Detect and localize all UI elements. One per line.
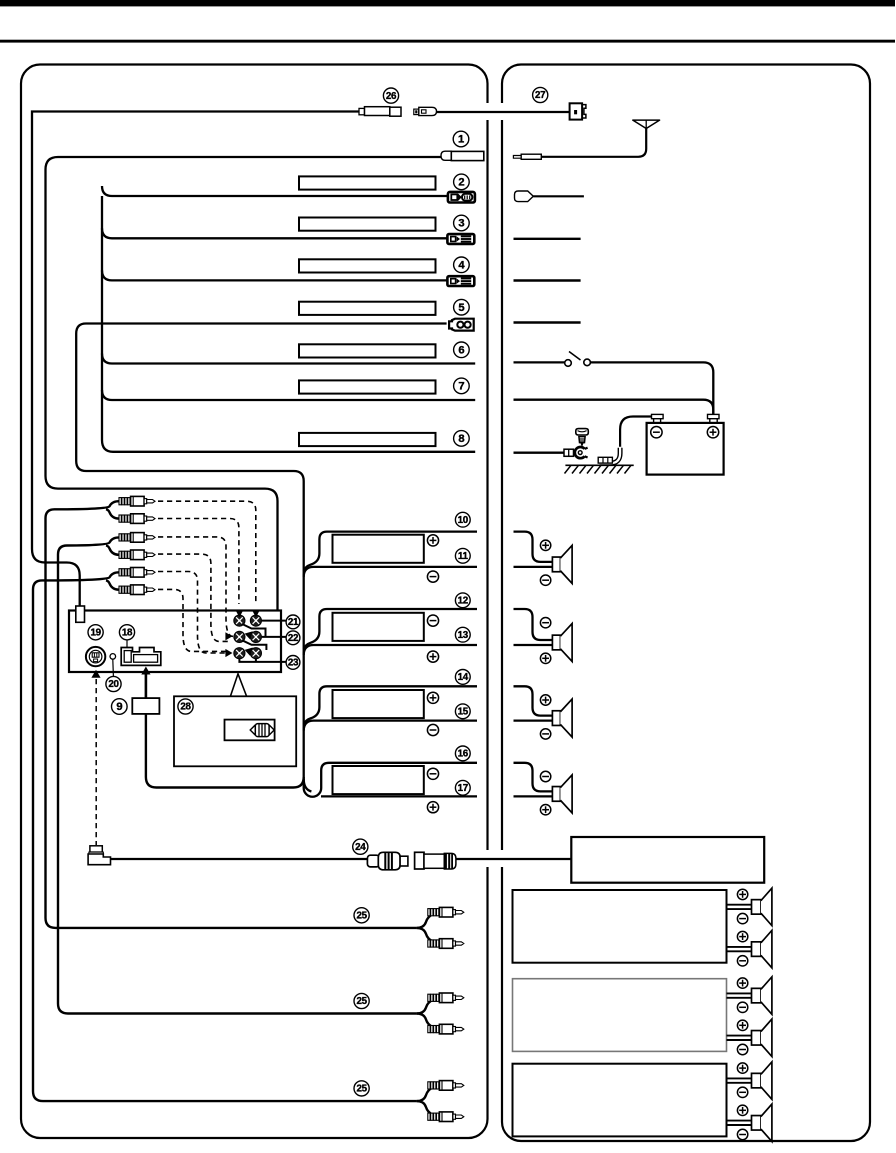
- label box 4: [299, 259, 436, 272]
- RCA pair A upper plug: [119, 496, 155, 506]
- amp B speaker 2 minus: [737, 1044, 747, 1054]
- RCA plug 25b upper: [428, 993, 464, 1003]
- polarity -: [540, 729, 550, 739]
- dashed pointer from DIN to plug 24: [95, 679, 97, 845]
- svg-text:17: 17: [458, 783, 469, 794]
- wire 4: [102, 270, 447, 280]
- polarity + 10: [427, 535, 438, 546]
- speaker label box 14/15: [333, 690, 424, 718]
- connector 2: [448, 192, 475, 203]
- label 8: [454, 431, 470, 447]
- RCA pair B upper plug: [119, 533, 155, 543]
- label 7: [454, 378, 470, 394]
- jack 23 bracket: [239, 659, 285, 662]
- svg-text:15: 15: [458, 706, 469, 717]
- label 15: [455, 704, 470, 719]
- label box 8: [299, 433, 436, 446]
- wire 24 to amplifier: [456, 858, 571, 860]
- wire 25a Y-split: [417, 912, 438, 928]
- amplifier box C: [513, 1064, 727, 1137]
- amp A speaker 1 plus: [737, 889, 747, 899]
- stub row 3: [514, 238, 581, 240]
- svg-text:13: 13: [458, 630, 469, 641]
- amp B speaker 2: [752, 1019, 772, 1057]
- polarity - 12: [427, 615, 438, 626]
- speaker icon 14/15: [552, 699, 572, 737]
- label 26: [383, 88, 398, 103]
- label 6: [454, 342, 470, 358]
- stub row 2 with bullet: [515, 191, 584, 202]
- amp A speaker 2 plus: [737, 931, 747, 941]
- reset hole 20: [110, 654, 116, 660]
- amp B speaker 1: [752, 977, 772, 1015]
- speaker label box 10/11: [333, 535, 424, 563]
- connector 1: [441, 151, 484, 160]
- amp C speaker 1 plus: [737, 1063, 747, 1073]
- label 19: [88, 625, 103, 640]
- connector 27: [570, 103, 586, 119]
- battery holder icon 28: [225, 720, 275, 741]
- svg-text:9: 9: [116, 701, 122, 713]
- amp A speaker 1 wires: [727, 905, 752, 909]
- svg-text:11: 11: [458, 551, 469, 562]
- RCA pair A lower plug: [119, 514, 155, 524]
- label box 2: [299, 176, 436, 189]
- wire 26 to panel 2: [437, 111, 570, 113]
- arrow into jack 23R: [245, 648, 253, 656]
- arrow into jack 22R: [245, 631, 253, 639]
- label box 6: [299, 344, 436, 357]
- amp C speaker 1 wires: [727, 1078, 752, 1082]
- polarity + 14: [427, 692, 438, 703]
- power lead lower / harness loop: [146, 714, 304, 788]
- label box 3: [299, 218, 436, 231]
- label 21: [286, 615, 300, 629]
- car battery: [647, 414, 724, 474]
- wire 5 and speaker harness trunk: [76, 324, 446, 792]
- car antenna symbol: [513, 120, 659, 159]
- svg-text:27: 27: [535, 90, 546, 101]
- wire 24: [111, 858, 368, 860]
- polarity - 15: [427, 724, 438, 735]
- harness connector 18: [121, 648, 161, 666]
- ground bracket: [598, 457, 612, 463]
- amp C speaker 2 minus: [737, 1129, 747, 1139]
- wire 6: [102, 354, 475, 364]
- svg-text:28: 28: [180, 702, 191, 713]
- row 8 ground wire: [514, 452, 565, 454]
- jack 22 bracket: [242, 637, 286, 650]
- svg-text:1: 1: [458, 134, 464, 146]
- dashed trace C2 to jack 23R: [158, 589, 228, 651]
- RCA pair C lower plug: [119, 585, 155, 595]
- speaker label box 12/13: [333, 613, 424, 641]
- box 28: [174, 696, 296, 766]
- svg-text:25: 25: [356, 910, 367, 921]
- wire 25b Y-split: [417, 998, 438, 1014]
- label 24: [353, 839, 368, 854]
- fuse box 9: [132, 698, 159, 714]
- power lead upper: [145, 675, 148, 699]
- amp B speaker 1 wires: [727, 993, 752, 997]
- wire 7: [102, 390, 475, 400]
- amp A speaker 2: [752, 930, 772, 968]
- ground lead sheath: [599, 447, 621, 464]
- wire 26 trunk and antenna-jack lead: [32, 112, 359, 607]
- wires 2-4,6-7 trunk vertical: [101, 196, 103, 440]
- polarity +: [540, 805, 550, 815]
- label 20 pointer: [112, 660, 115, 677]
- antenna jack on unit: [76, 606, 85, 622]
- dashed trace B2 to jack 22R: [158, 554, 228, 641]
- polarity - 11: [427, 571, 438, 582]
- polarity +: [540, 695, 550, 705]
- speaker 16/17 wires: [514, 763, 553, 792]
- connector 26 male plug: [414, 107, 437, 115]
- RCA pair C Y-split and lead: [33, 572, 417, 1101]
- svg-text:25: 25: [356, 1084, 367, 1095]
- polarity -: [540, 771, 550, 781]
- svg-text:10: 10: [458, 515, 469, 526]
- label 25 (c): [354, 1081, 369, 1096]
- speaker label box 16/17: [333, 766, 424, 794]
- label 25 (b): [354, 993, 369, 1008]
- polarity +: [540, 653, 550, 663]
- wire 8: [102, 440, 475, 452]
- RCA pair A Y-split and lead: [46, 501, 417, 928]
- dashed trace C1 to jack 23L: [158, 572, 226, 654]
- amp B speaker 2 wires: [727, 1036, 752, 1040]
- arrow into jack 21R: [252, 610, 260, 618]
- speaker 12/13 wires: [514, 609, 553, 640]
- connector 24 male half: [367, 852, 408, 870]
- polarity -: [540, 575, 550, 585]
- speaker icon 12/13: [552, 624, 572, 662]
- chassis ground hatching: [565, 465, 634, 473]
- polarity + 17: [427, 802, 438, 813]
- svg-text:12: 12: [458, 595, 469, 606]
- svg-text:7: 7: [458, 380, 464, 392]
- speaker 10/11 wires: [514, 532, 553, 562]
- svg-text:19: 19: [90, 627, 101, 638]
- amp B speaker 1 plus: [737, 978, 747, 988]
- label box 5: [299, 302, 436, 315]
- amp A speaker 2 wires: [727, 947, 752, 951]
- battery minus sign: [651, 427, 662, 438]
- svg-text:6: 6: [458, 344, 464, 356]
- svg-text:20: 20: [108, 679, 119, 690]
- label 23: [286, 656, 300, 670]
- connector 24 female half: [415, 852, 456, 869]
- page second rule: [0, 40, 895, 43]
- ignition switch wire: [514, 352, 714, 415]
- label 12: [455, 593, 470, 608]
- ground fork terminal: [564, 447, 588, 458]
- RCA pair B lower plug: [119, 550, 155, 560]
- speaker 14/15 wires: [514, 686, 553, 715]
- label 18 pointer: [126, 640, 128, 648]
- label 14: [455, 670, 470, 685]
- amp C speaker 1 minus: [737, 1087, 747, 1097]
- svg-text:8: 8: [458, 433, 464, 445]
- ground bolt: [576, 429, 589, 448]
- RCA plug 25c upper: [428, 1081, 464, 1091]
- right-angle plug 24: [88, 846, 110, 865]
- svg-text:21: 21: [288, 617, 299, 628]
- speaker wires 16/17 branch: [304, 763, 477, 797]
- wire 1 trunk: [46, 157, 442, 610]
- speaker wires 14/15 branch: [304, 686, 477, 724]
- connector 4: [447, 276, 474, 286]
- polarity + 13: [427, 651, 438, 662]
- RCA plug 25a upper: [428, 907, 464, 917]
- amp C speaker 2 wires: [727, 1121, 752, 1125]
- jack 21 bracket: [242, 621, 286, 637]
- label 4: [454, 257, 470, 273]
- label 1: [453, 131, 469, 147]
- label 18: [119, 625, 134, 640]
- speaker wires 10/11 branch: [304, 532, 477, 571]
- RCA plug 25b lower: [428, 1024, 464, 1034]
- stub row 5: [514, 321, 581, 323]
- polarity +: [540, 540, 550, 550]
- amp B speaker 2 plus: [737, 1020, 747, 1030]
- connector 3: [447, 234, 474, 244]
- label 5: [454, 299, 470, 315]
- polarity - 16: [427, 768, 438, 779]
- left panel frame: [21, 65, 488, 1139]
- label 16: [455, 746, 470, 761]
- amp C speaker 1: [752, 1062, 772, 1100]
- right panel frame: [502, 65, 870, 1142]
- label 28: [178, 699, 193, 714]
- dashed trace B1 to jack 22L: [158, 537, 233, 636]
- amp A speaker 2 minus: [737, 956, 747, 966]
- arrow into jack 21L: [235, 610, 243, 618]
- svg-text:22: 22: [288, 633, 299, 644]
- RCA plug 25c lower: [428, 1112, 464, 1122]
- svg-text:16: 16: [458, 749, 469, 760]
- amp A speaker 1: [752, 888, 772, 926]
- arrow from plug 24 to DIN: [91, 670, 100, 678]
- arrow into connector 18: [141, 667, 150, 675]
- svg-text:5: 5: [458, 302, 464, 314]
- RCA pair B Y-split and lead: [58, 537, 417, 1013]
- label box 7: [299, 380, 436, 393]
- page top rule bar: [0, 0, 895, 6]
- polarity -: [540, 618, 550, 628]
- amp C speaker 2: [752, 1104, 772, 1142]
- label 20: [106, 676, 121, 691]
- label 3: [454, 215, 470, 231]
- RCA pair C upper plug: [119, 568, 155, 578]
- DIN socket 19: [86, 647, 105, 666]
- speaker wires 12/13 branch: [304, 609, 477, 649]
- svg-text:23: 23: [288, 658, 299, 669]
- amp C speaker 2 plus: [737, 1105, 747, 1115]
- svg-text:25: 25: [356, 996, 367, 1007]
- amplifier box B: [513, 979, 727, 1052]
- svg-text:24: 24: [355, 842, 366, 853]
- stub row 4: [514, 279, 581, 281]
- svg-text:14: 14: [458, 672, 469, 683]
- svg-text:26: 26: [386, 91, 397, 102]
- callout wedge to box 28: [231, 674, 247, 696]
- arrow into jack 23L: [225, 649, 232, 657]
- amp B speaker 1 minus: [737, 1002, 747, 1012]
- wire 2: [102, 186, 448, 196]
- connector 26 female plug: [359, 107, 401, 117]
- label 22: [286, 631, 300, 645]
- dashed trace A1 to jack 21R: [158, 501, 256, 604]
- amplifier box (24): [571, 837, 764, 883]
- border gap at antenna lead wire: [484, 103, 490, 120]
- amp A speaker 1 minus: [737, 913, 747, 923]
- label 11: [455, 548, 470, 563]
- RCA plug 25a lower: [428, 939, 464, 949]
- wire 3: [102, 228, 447, 238]
- svg-text:3: 3: [458, 218, 464, 230]
- main unit box: [69, 611, 281, 673]
- arrow into jack 22L: [225, 632, 232, 640]
- svg-text:2: 2: [458, 176, 464, 188]
- battery plus sign: [707, 427, 718, 438]
- speaker icon 10/11: [552, 545, 572, 583]
- connector 5: [449, 319, 474, 331]
- svg-text:18: 18: [122, 627, 133, 638]
- wire 25c Y-split: [417, 1085, 438, 1101]
- label 25 (a): [354, 908, 369, 923]
- label 27: [533, 87, 548, 102]
- battery ground lead: [620, 417, 651, 448]
- constant power wire row 7: [514, 400, 714, 415]
- label 2: [454, 174, 470, 190]
- amplifier box A: [513, 890, 727, 963]
- dashed trace A2 to jack 21L: [158, 519, 239, 605]
- label 9: [112, 699, 128, 715]
- label 17: [455, 780, 470, 795]
- pre-out jacks 21/22/23: [234, 615, 262, 659]
- border gap at power cord wire: [484, 850, 490, 867]
- label 13: [455, 627, 470, 642]
- speaker icon 16/17: [552, 775, 572, 813]
- label 10: [455, 512, 470, 527]
